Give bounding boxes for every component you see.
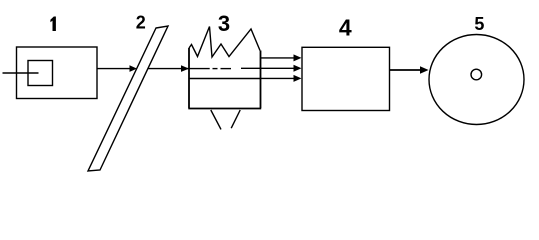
- funnel V below block 3: [211, 110, 240, 129]
- wire block 3 to block 4 (top): [260, 57, 295, 59]
- circle 5 (drum): [429, 35, 524, 125]
- block 3 body (left, right, bottom edges): [188, 48, 261, 109]
- wire block 1 to plate 2: [97, 68, 131, 70]
- arrowhead top into block 4: [294, 54, 302, 61]
- svg-text:5: 5: [474, 14, 484, 34]
- arrowhead into circle 5: [420, 66, 429, 74]
- block 3 zigzag top: [189, 27, 260, 58]
- arrowhead middle into block 4: [294, 65, 302, 72]
- block 1 inner square: [28, 61, 53, 86]
- wire block 3 to block 4 (middle beam): [241, 67, 295, 69]
- arrowhead into plate 2: [130, 65, 138, 72]
- arrowhead into block 3: [181, 65, 189, 72]
- circle 5 inner hub: [471, 69, 482, 80]
- block 4 rectangle: [302, 47, 390, 110]
- svg-text:2: 2: [136, 13, 146, 33]
- wire block 3 to block 4 (bottom, from divider): [260, 77, 295, 79]
- arrowhead bottom into block 4: [294, 75, 302, 82]
- wire block 4 to circle 5: [390, 69, 422, 71]
- svg-text:3: 3: [218, 11, 230, 36]
- block 1 outer rectangle: [17, 47, 98, 99]
- plate 2 (tilted mirror): [88, 26, 168, 171]
- wire input to block 1: [3, 72, 39, 74]
- label 1: [50, 17, 56, 32]
- svg-text:4: 4: [339, 15, 352, 41]
- dashed beam line inside block 3: [213, 68, 218, 70]
- wire plate 2 to block 3: [149, 68, 210, 70]
- block 3 inner divider line: [189, 78, 260, 80]
